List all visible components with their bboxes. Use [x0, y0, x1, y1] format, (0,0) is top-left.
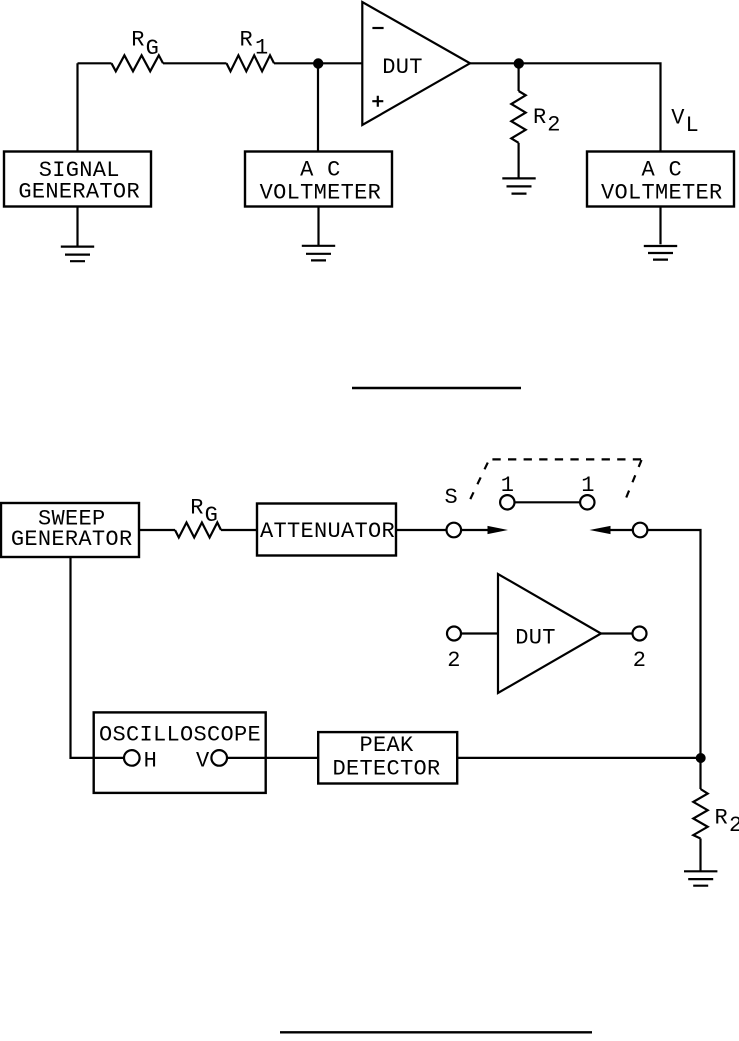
svg-text:R: R	[533, 105, 547, 130]
resistor R2 (bottom)	[693, 789, 707, 839]
contact circle 1 left	[500, 495, 514, 509]
DUT triangle (bottom)	[498, 574, 601, 693]
wire right voltmeter ground lead	[659, 207, 661, 245]
svg-text:S: S	[445, 485, 459, 510]
ground below middle voltmeter	[302, 246, 335, 261]
arrowhead right pointing left	[590, 526, 611, 534]
contact circle 1 right	[580, 495, 594, 509]
arrowhead switch pole right	[488, 526, 509, 534]
wire sweep generator to oscilloscope H	[71, 557, 125, 758]
ground below signal generator	[61, 247, 94, 262]
svg-text:DUT: DUT	[382, 55, 423, 80]
wire contact shorting bar	[515, 501, 581, 503]
svg-text:V: V	[671, 105, 685, 130]
svg-text:2: 2	[547, 113, 561, 138]
svg-text:R: R	[715, 805, 729, 830]
wire sweep generator to RG	[139, 529, 175, 531]
svg-text:G: G	[205, 503, 219, 528]
plus sign op-amp	[372, 96, 383, 107]
minus sign op-amp	[372, 27, 383, 29]
resistor R1	[227, 55, 275, 71]
wire V to peak detector	[227, 757, 318, 759]
svg-text:OSCILLOSCOPE: OSCILLOSCOPE	[99, 723, 261, 748]
ground below right voltmeter	[644, 246, 677, 260]
divider line 1	[352, 387, 521, 389]
svg-text:2: 2	[447, 648, 461, 673]
resistor RG (top)	[112, 55, 164, 71]
svg-text:VOLTMETER: VOLTMETER	[260, 180, 382, 205]
wire peak detector to junction	[457, 757, 700, 759]
wire R2 bottom lead	[517, 143, 519, 178]
ground below R2	[502, 178, 535, 193]
svg-text:ATTENUATOR: ATTENUATOR	[260, 519, 395, 544]
ground bottom right	[684, 871, 717, 885]
wire R2 top lead	[517, 63, 519, 91]
box AC voltmeter (middle)	[245, 152, 392, 207]
wire right arrow lead	[610, 529, 633, 531]
wire DUT right lead	[601, 632, 633, 634]
svg-text:2: 2	[633, 648, 647, 673]
wire RG to attenuator	[221, 529, 257, 531]
svg-text:R: R	[240, 28, 254, 53]
svg-text:1: 1	[255, 35, 269, 60]
wire middle voltmeter ground lead	[317, 207, 319, 246]
junction dot bottom right	[696, 753, 706, 763]
wire signal generator up lead	[76, 63, 78, 151]
svg-text:V: V	[196, 749, 210, 774]
resistor R2 (top)	[511, 91, 525, 143]
wire DUT left lead	[461, 632, 498, 634]
resistor RG (bottom)	[175, 523, 221, 538]
svg-text:DETECTOR: DETECTOR	[332, 757, 440, 782]
switch circle right	[633, 523, 648, 538]
wire attenuator to switch pole	[396, 529, 446, 531]
wire R1 to op-amp input	[274, 62, 362, 64]
svg-text:H: H	[144, 749, 158, 774]
dashed plug-in outline right side	[626, 460, 642, 499]
svg-text:A C: A C	[642, 158, 683, 183]
svg-text:A C: A C	[300, 158, 341, 183]
terminal circle 2 left	[447, 627, 461, 641]
box peak detector	[318, 732, 457, 783]
wire R2 ground lead (bottom)	[699, 839, 701, 871]
wire switch pole arrow lead	[461, 529, 488, 531]
divider line 2	[280, 1031, 592, 1033]
svg-text:GENERATOR: GENERATOR	[11, 527, 133, 552]
dashed plug-in outline top	[492, 458, 642, 460]
svg-text:PEAK: PEAK	[359, 733, 414, 758]
svg-text:GENERATOR: GENERATOR	[18, 179, 140, 204]
svg-text:DUT: DUT	[515, 625, 556, 650]
box AC voltmeter (right)	[587, 152, 734, 207]
box oscilloscope	[94, 712, 266, 793]
wire op-amp output	[470, 63, 661, 151]
switch pole circle S	[447, 523, 462, 538]
junction dot node A	[313, 58, 323, 68]
svg-text:R: R	[131, 28, 145, 53]
svg-text:1: 1	[501, 473, 515, 498]
wire R2 top lead (bottom)	[699, 758, 701, 789]
box signal generator	[4, 152, 151, 207]
svg-text:1: 1	[581, 473, 595, 498]
terminal circle 2 right	[633, 627, 647, 641]
svg-text:2: 2	[729, 813, 739, 838]
svg-text:G: G	[146, 36, 160, 61]
junction dot output node	[514, 58, 524, 68]
dashed plug-in outline left side	[470, 460, 489, 499]
svg-text:R: R	[190, 495, 204, 520]
terminal circle H	[124, 750, 140, 766]
box attenuator	[257, 504, 396, 556]
svg-text:VOLTMETER: VOLTMETER	[601, 180, 723, 205]
wire main input left segment	[78, 62, 112, 64]
wire right switch to bottom junction	[647, 530, 700, 758]
wire node A down to AC voltmeter	[317, 63, 319, 151]
svg-text:L: L	[686, 113, 700, 138]
terminal circle V	[211, 750, 227, 766]
wire signal generator ground lead	[76, 207, 78, 246]
wire RG to R1	[163, 62, 227, 64]
box sweep generator	[1, 503, 139, 557]
op-amp DUT triangle (top)	[362, 2, 470, 125]
